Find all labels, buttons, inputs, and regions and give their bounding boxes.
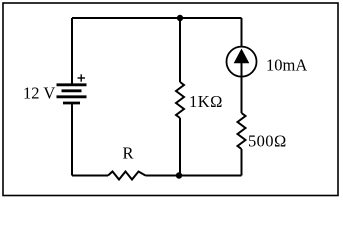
- resistor 500Ohm (vertical): [238, 113, 246, 149]
- wire bottom rail left: [72, 175, 108, 177]
- border frame: [3, 3, 338, 196]
- wire right branch middle: [241, 77, 243, 113]
- svg-text:12 V: 12 V: [23, 84, 55, 103]
- wire middle branch lower: [179, 118, 181, 176]
- wire middle branch upper: [179, 18, 181, 82]
- battery plus sign: [78, 74, 86, 81]
- wire right branch lower: [241, 149, 243, 176]
- battery V1 12V: [57, 85, 87, 103]
- wire top rail: [72, 17, 242, 19]
- svg-text:500Ω: 500Ω: [248, 132, 287, 151]
- node junction dot top: [177, 15, 183, 21]
- wire left branch upper: [71, 18, 73, 84]
- resistor R (horizontal): [108, 172, 146, 180]
- svg-text:R: R: [123, 143, 134, 162]
- wire right branch upper: [241, 18, 243, 47]
- current source I1 10mA: [227, 47, 257, 77]
- node junction dot bottom: [176, 172, 182, 178]
- svg-text:10mA: 10mA: [266, 56, 307, 75]
- wire left branch lower: [71, 103, 73, 176]
- wire bottom rail right: [146, 175, 242, 177]
- svg-text:1KΩ: 1KΩ: [189, 92, 223, 111]
- resistor 1KOhm (vertical): [176, 82, 184, 118]
